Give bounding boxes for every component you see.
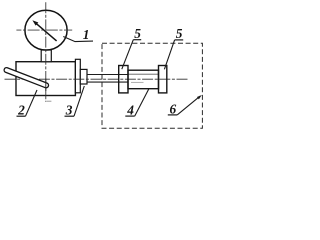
svg-text:1: 1 [83, 27, 90, 42]
leader 6 arrowhead [197, 95, 202, 99]
stem [41, 50, 51, 62]
label 5b underline [175, 39, 184, 41]
flange 5a fill [119, 66, 128, 93]
shaft [87, 74, 128, 76]
leader 4 [135, 89, 149, 116]
svg-text:6: 6 [170, 101, 177, 116]
stray mark below body [47, 100, 52, 102]
svg-text:4: 4 [126, 103, 134, 118]
label 3 underline [65, 115, 75, 117]
cap [75, 59, 80, 93]
horizontal centerline [5, 78, 189, 80]
coupling 4 fill [128, 70, 159, 89]
body 2 [16, 62, 75, 96]
handle 2 [4, 68, 48, 88]
flange 5b [159, 66, 167, 93]
svg-text:3: 3 [65, 103, 73, 118]
leader 5a [122, 40, 134, 69]
vertical centerline [45, 2, 47, 102]
label 5a underline [133, 39, 141, 41]
label 6 underline [168, 114, 177, 116]
leader 6 [177, 96, 200, 115]
needle [35, 22, 57, 41]
vertical centerline over handle [45, 79, 47, 92]
leader 3 [74, 86, 84, 116]
label 4 underline [125, 115, 134, 117]
svg-text:5: 5 [176, 26, 183, 41]
coupling 4 [128, 70, 159, 89]
label 2 underline [17, 115, 26, 117]
gauge 1 [25, 10, 67, 50]
svg-text:5: 5 [134, 26, 141, 41]
flange 5b fill [159, 66, 167, 93]
svg-text:2: 2 [17, 103, 25, 118]
needle arrowhead [32, 20, 38, 25]
leader 2 [26, 90, 38, 116]
gauge centerline [16, 29, 72, 31]
connector 3 [80, 69, 87, 84]
leader 1 [63, 37, 93, 42]
flange 5a [119, 66, 128, 93]
leader 5b [164, 40, 174, 69]
dashed enclosure 6 [102, 43, 202, 128]
